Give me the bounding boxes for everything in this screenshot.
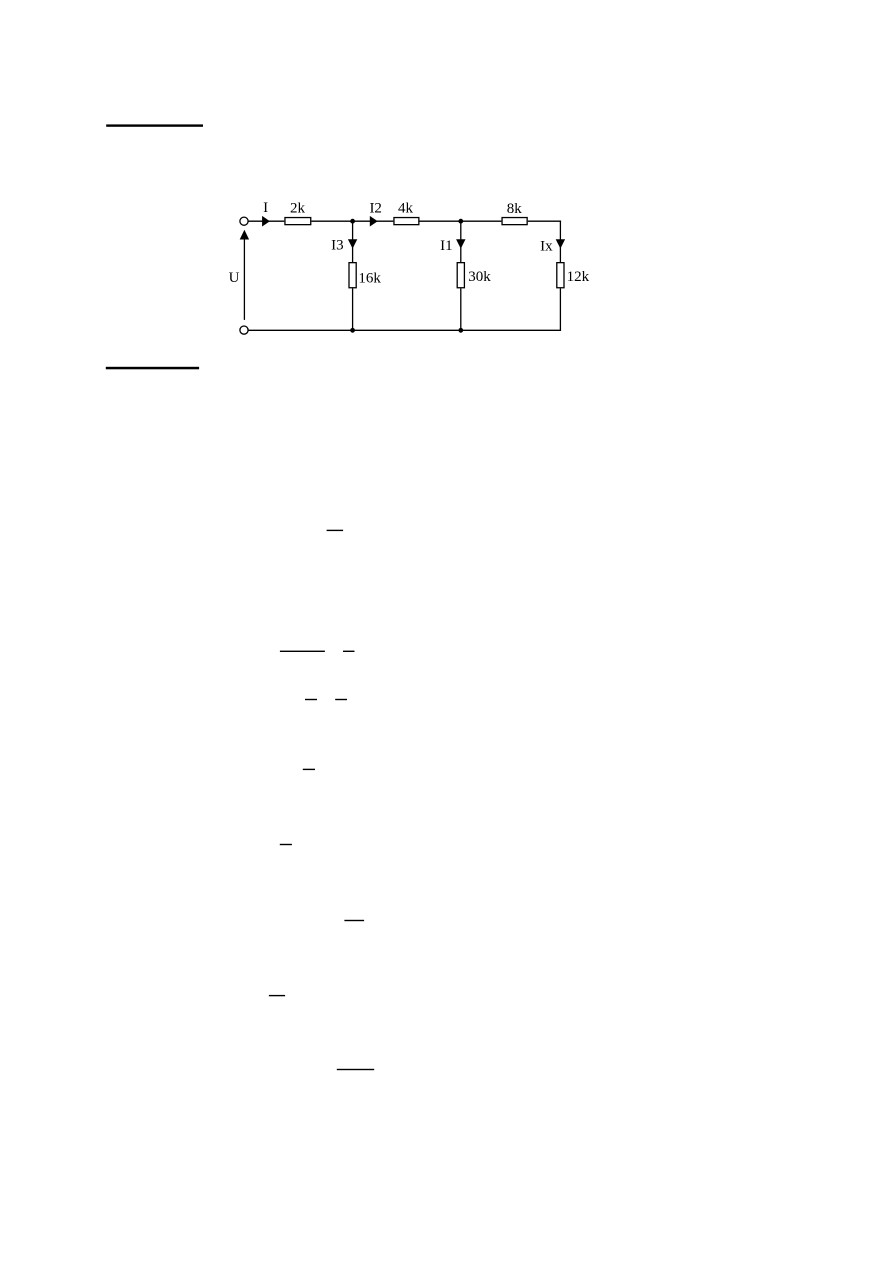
svg-text:2k: 2k (290, 200, 306, 216)
svg-text:30k: 30k (468, 269, 491, 285)
wire top segment (node B to 8k) (461, 220, 502, 222)
node B junction dot (458, 219, 463, 224)
fraction bar 9 (269, 995, 285, 996)
current arrow I2 (370, 216, 378, 227)
wire branch 3 upper (right corner down) (559, 221, 561, 262)
svg-text:8k: 8k (507, 201, 523, 217)
terminal bottom-left (240, 326, 248, 334)
heading underline 1 (106, 124, 203, 126)
resistor 2k (285, 218, 311, 225)
svg-text:I1: I1 (440, 238, 453, 254)
svg-text:U: U (229, 270, 240, 286)
wire branch 3 lower (12k to bottom corner) (559, 288, 561, 331)
fraction bar 3 (343, 651, 355, 652)
resistor 16k (349, 263, 356, 288)
node A junction dot (350, 219, 355, 224)
svg-text:I: I (263, 200, 268, 216)
fraction bar 1 (327, 530, 344, 531)
current arrow I3 (348, 239, 357, 248)
resistor 12k (557, 263, 564, 288)
fraction bar 8 (344, 920, 364, 921)
svg-text:16k: 16k (358, 271, 381, 287)
current arrow Ix (556, 239, 565, 248)
svg-text:I2: I2 (369, 200, 382, 216)
svg-text:I3: I3 (331, 237, 344, 253)
resistor 8k (502, 218, 527, 225)
fraction bar 7 (280, 844, 292, 845)
wire top segment (4k to node B) (420, 220, 461, 222)
node C junction dot (bottom, branch 1) (350, 328, 355, 333)
resistor 30k (457, 263, 464, 288)
resistor 4k (394, 218, 419, 225)
wire branch 1 upper (node A down) (352, 221, 354, 262)
current arrow I1 (456, 239, 465, 248)
wire branch 1 lower (16k to bottom wire) (352, 288, 354, 330)
heading underline 2 (106, 367, 199, 370)
fraction bar 10 (337, 1069, 374, 1070)
fraction bar 2 (280, 651, 325, 652)
node D junction dot (bottom, branch 2) (458, 328, 463, 333)
fraction bar 5 (335, 699, 347, 700)
wire bottom (terminal to corner) (248, 329, 561, 331)
wire top segment (node A to 4k) (353, 220, 394, 222)
svg-text:4k: 4k (398, 200, 414, 216)
voltage arrow U (head) (240, 230, 249, 240)
wire branch 2 upper (node B down) (460, 221, 462, 262)
terminal top-left (240, 217, 248, 225)
fraction bar 4 (305, 699, 317, 700)
wire top segment (2k to node A) (311, 220, 352, 222)
current arrow I (262, 216, 270, 227)
wire top segment (8k to right corner) (528, 220, 561, 222)
wire branch 2 lower (30k to bottom wire) (460, 288, 462, 330)
voltage arrow U (line) (243, 239, 245, 320)
wire top segment (terminal to 2k) (248, 220, 284, 222)
svg-text:Ix: Ix (540, 239, 553, 255)
fraction bar 6 (303, 769, 315, 770)
svg-text:12k: 12k (567, 269, 590, 285)
